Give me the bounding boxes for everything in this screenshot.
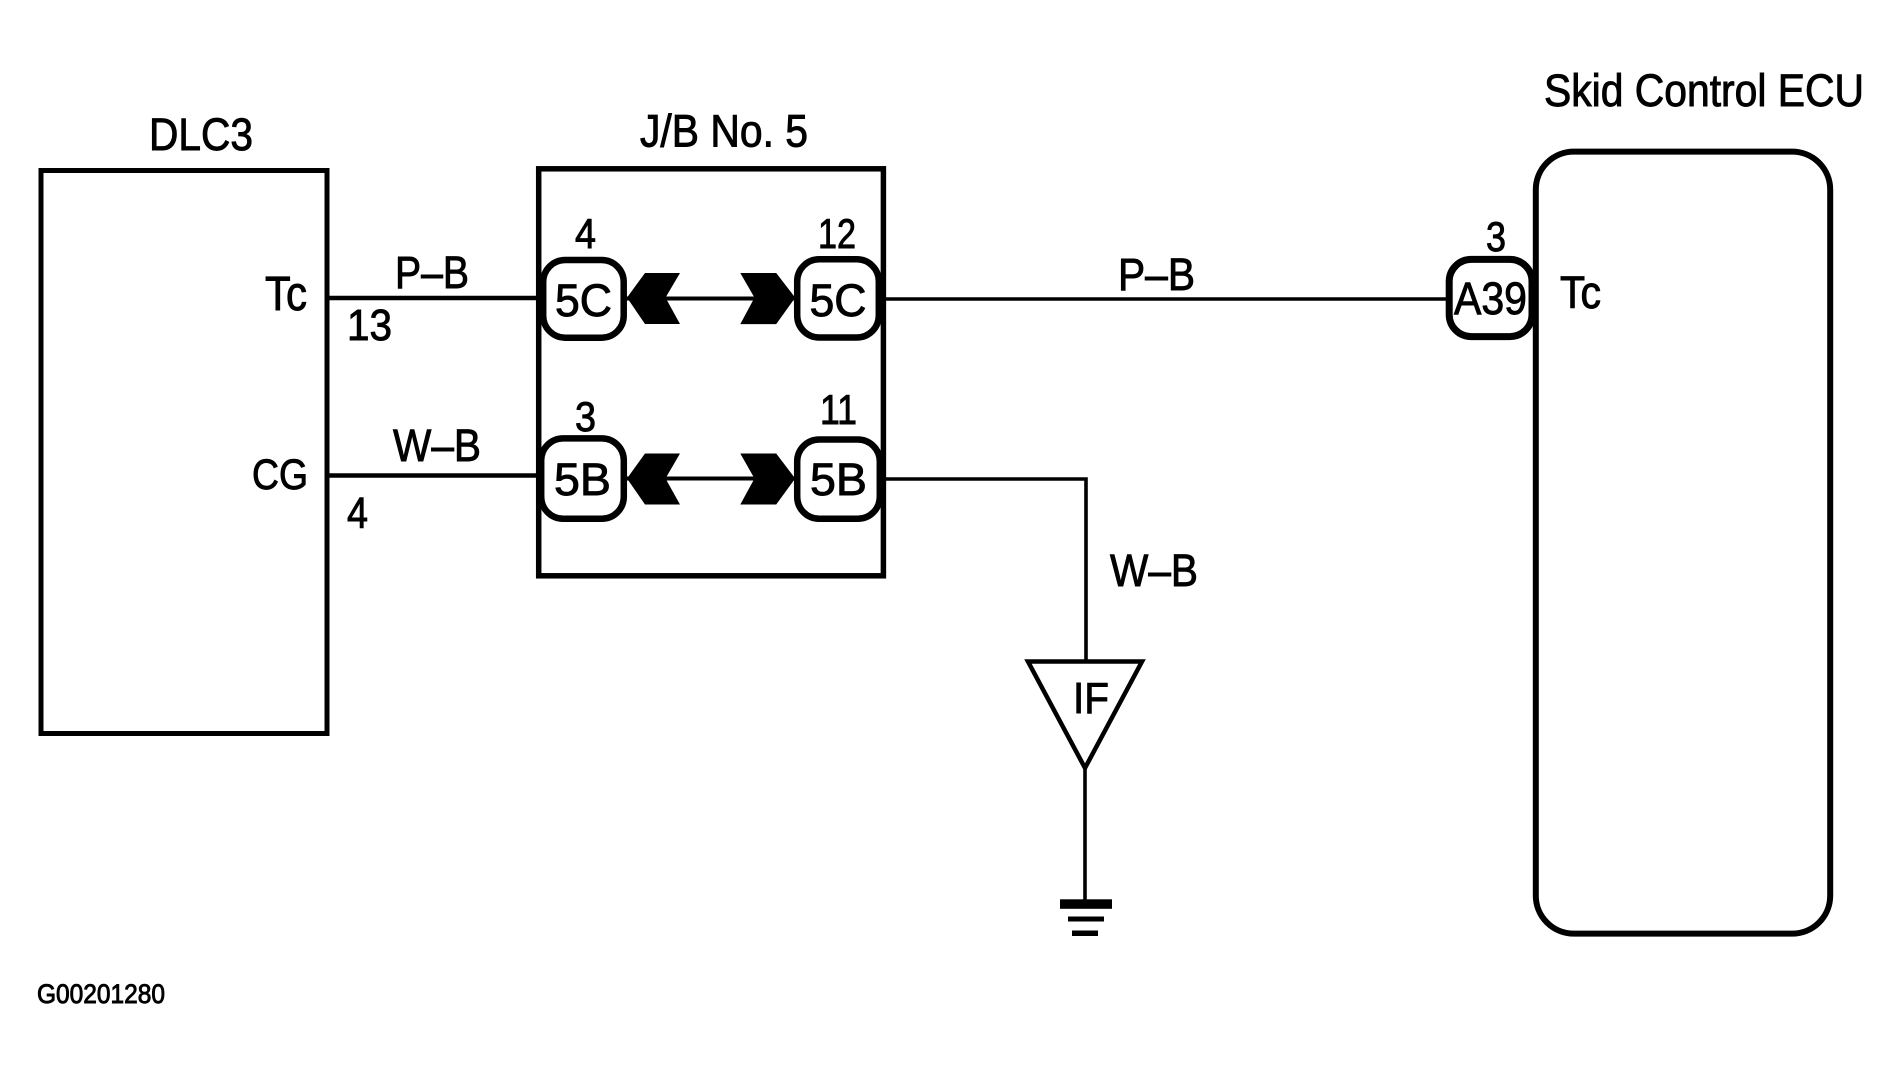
connector oval 5B left xyxy=(541,438,624,518)
svg-text:3: 3 xyxy=(575,393,596,440)
ECU box Skid Control ECU xyxy=(1536,152,1830,934)
ground bar 3 xyxy=(1072,931,1098,937)
connector oval 5C right xyxy=(797,259,879,337)
svg-text:CG: CG xyxy=(252,451,308,499)
svg-text:Tc: Tc xyxy=(265,268,307,321)
wire W-B J/B to corner xyxy=(865,479,1086,664)
wire Tc DLC3 to J/B xyxy=(327,296,560,301)
svg-text:P–B: P–B xyxy=(1118,249,1195,300)
connector oval 5B right xyxy=(797,440,880,519)
svg-text:IF: IF xyxy=(1073,674,1109,723)
connector oval 5C left xyxy=(543,260,624,338)
ground bar 1 xyxy=(1060,899,1112,909)
svg-text:P–B: P–B xyxy=(395,247,469,298)
svg-text:5C: 5C xyxy=(555,275,612,326)
arrow left row2 xyxy=(627,454,680,505)
svg-text:DLC3: DLC3 xyxy=(149,109,253,160)
svg-text:Skid Control ECU: Skid Control ECU xyxy=(1544,65,1864,116)
svg-text:W–B: W–B xyxy=(1110,545,1198,596)
svg-text:Tc: Tc xyxy=(1560,267,1601,318)
svg-text:5B: 5B xyxy=(554,454,611,505)
wire CG DLC3 to J/B xyxy=(327,473,560,478)
ground bar 2 xyxy=(1068,917,1104,922)
arrow left row1 xyxy=(627,273,680,324)
svg-text:G00201280: G00201280 xyxy=(37,979,165,1009)
svg-text:12: 12 xyxy=(818,210,856,257)
svg-text:5B: 5B xyxy=(810,454,867,505)
svg-text:J/B No. 5: J/B No. 5 xyxy=(640,106,808,157)
wire W-B inside J/B row2 xyxy=(605,477,815,481)
svg-text:4: 4 xyxy=(575,210,596,257)
junction block J/B No. 5 box xyxy=(539,169,884,576)
svg-text:A39: A39 xyxy=(1454,273,1527,324)
svg-text:13: 13 xyxy=(347,301,392,350)
wire P-B J/B to A39 xyxy=(865,297,1450,301)
arrow right row1 xyxy=(740,273,795,324)
wire P-B inside J/B row1 xyxy=(605,297,815,301)
connector oval A39 xyxy=(1449,259,1532,336)
wire triangle IF to ground xyxy=(1083,766,1087,904)
svg-text:W–B: W–B xyxy=(393,420,481,471)
connector DLC3 box xyxy=(41,171,327,734)
svg-text:4: 4 xyxy=(347,489,368,538)
arrow right row2 xyxy=(740,454,795,505)
svg-text:11: 11 xyxy=(820,386,857,433)
svg-text:5C: 5C xyxy=(810,275,867,326)
ground triangle IF xyxy=(1028,662,1142,769)
svg-text:3: 3 xyxy=(1486,213,1506,260)
